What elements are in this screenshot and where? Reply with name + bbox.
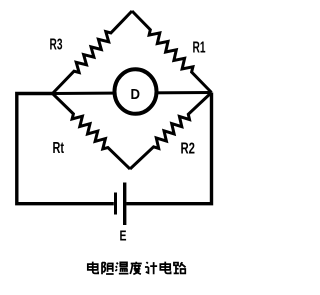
svg-text:R3: R3 — [50, 36, 63, 53]
svg-text:D: D — [131, 87, 141, 103]
svg-text:E: E — [120, 228, 127, 245]
svg-text:R2: R2 — [181, 140, 196, 157]
svg-text:R1: R1 — [193, 39, 206, 56]
svg-text:Rt: Rt — [53, 140, 65, 157]
